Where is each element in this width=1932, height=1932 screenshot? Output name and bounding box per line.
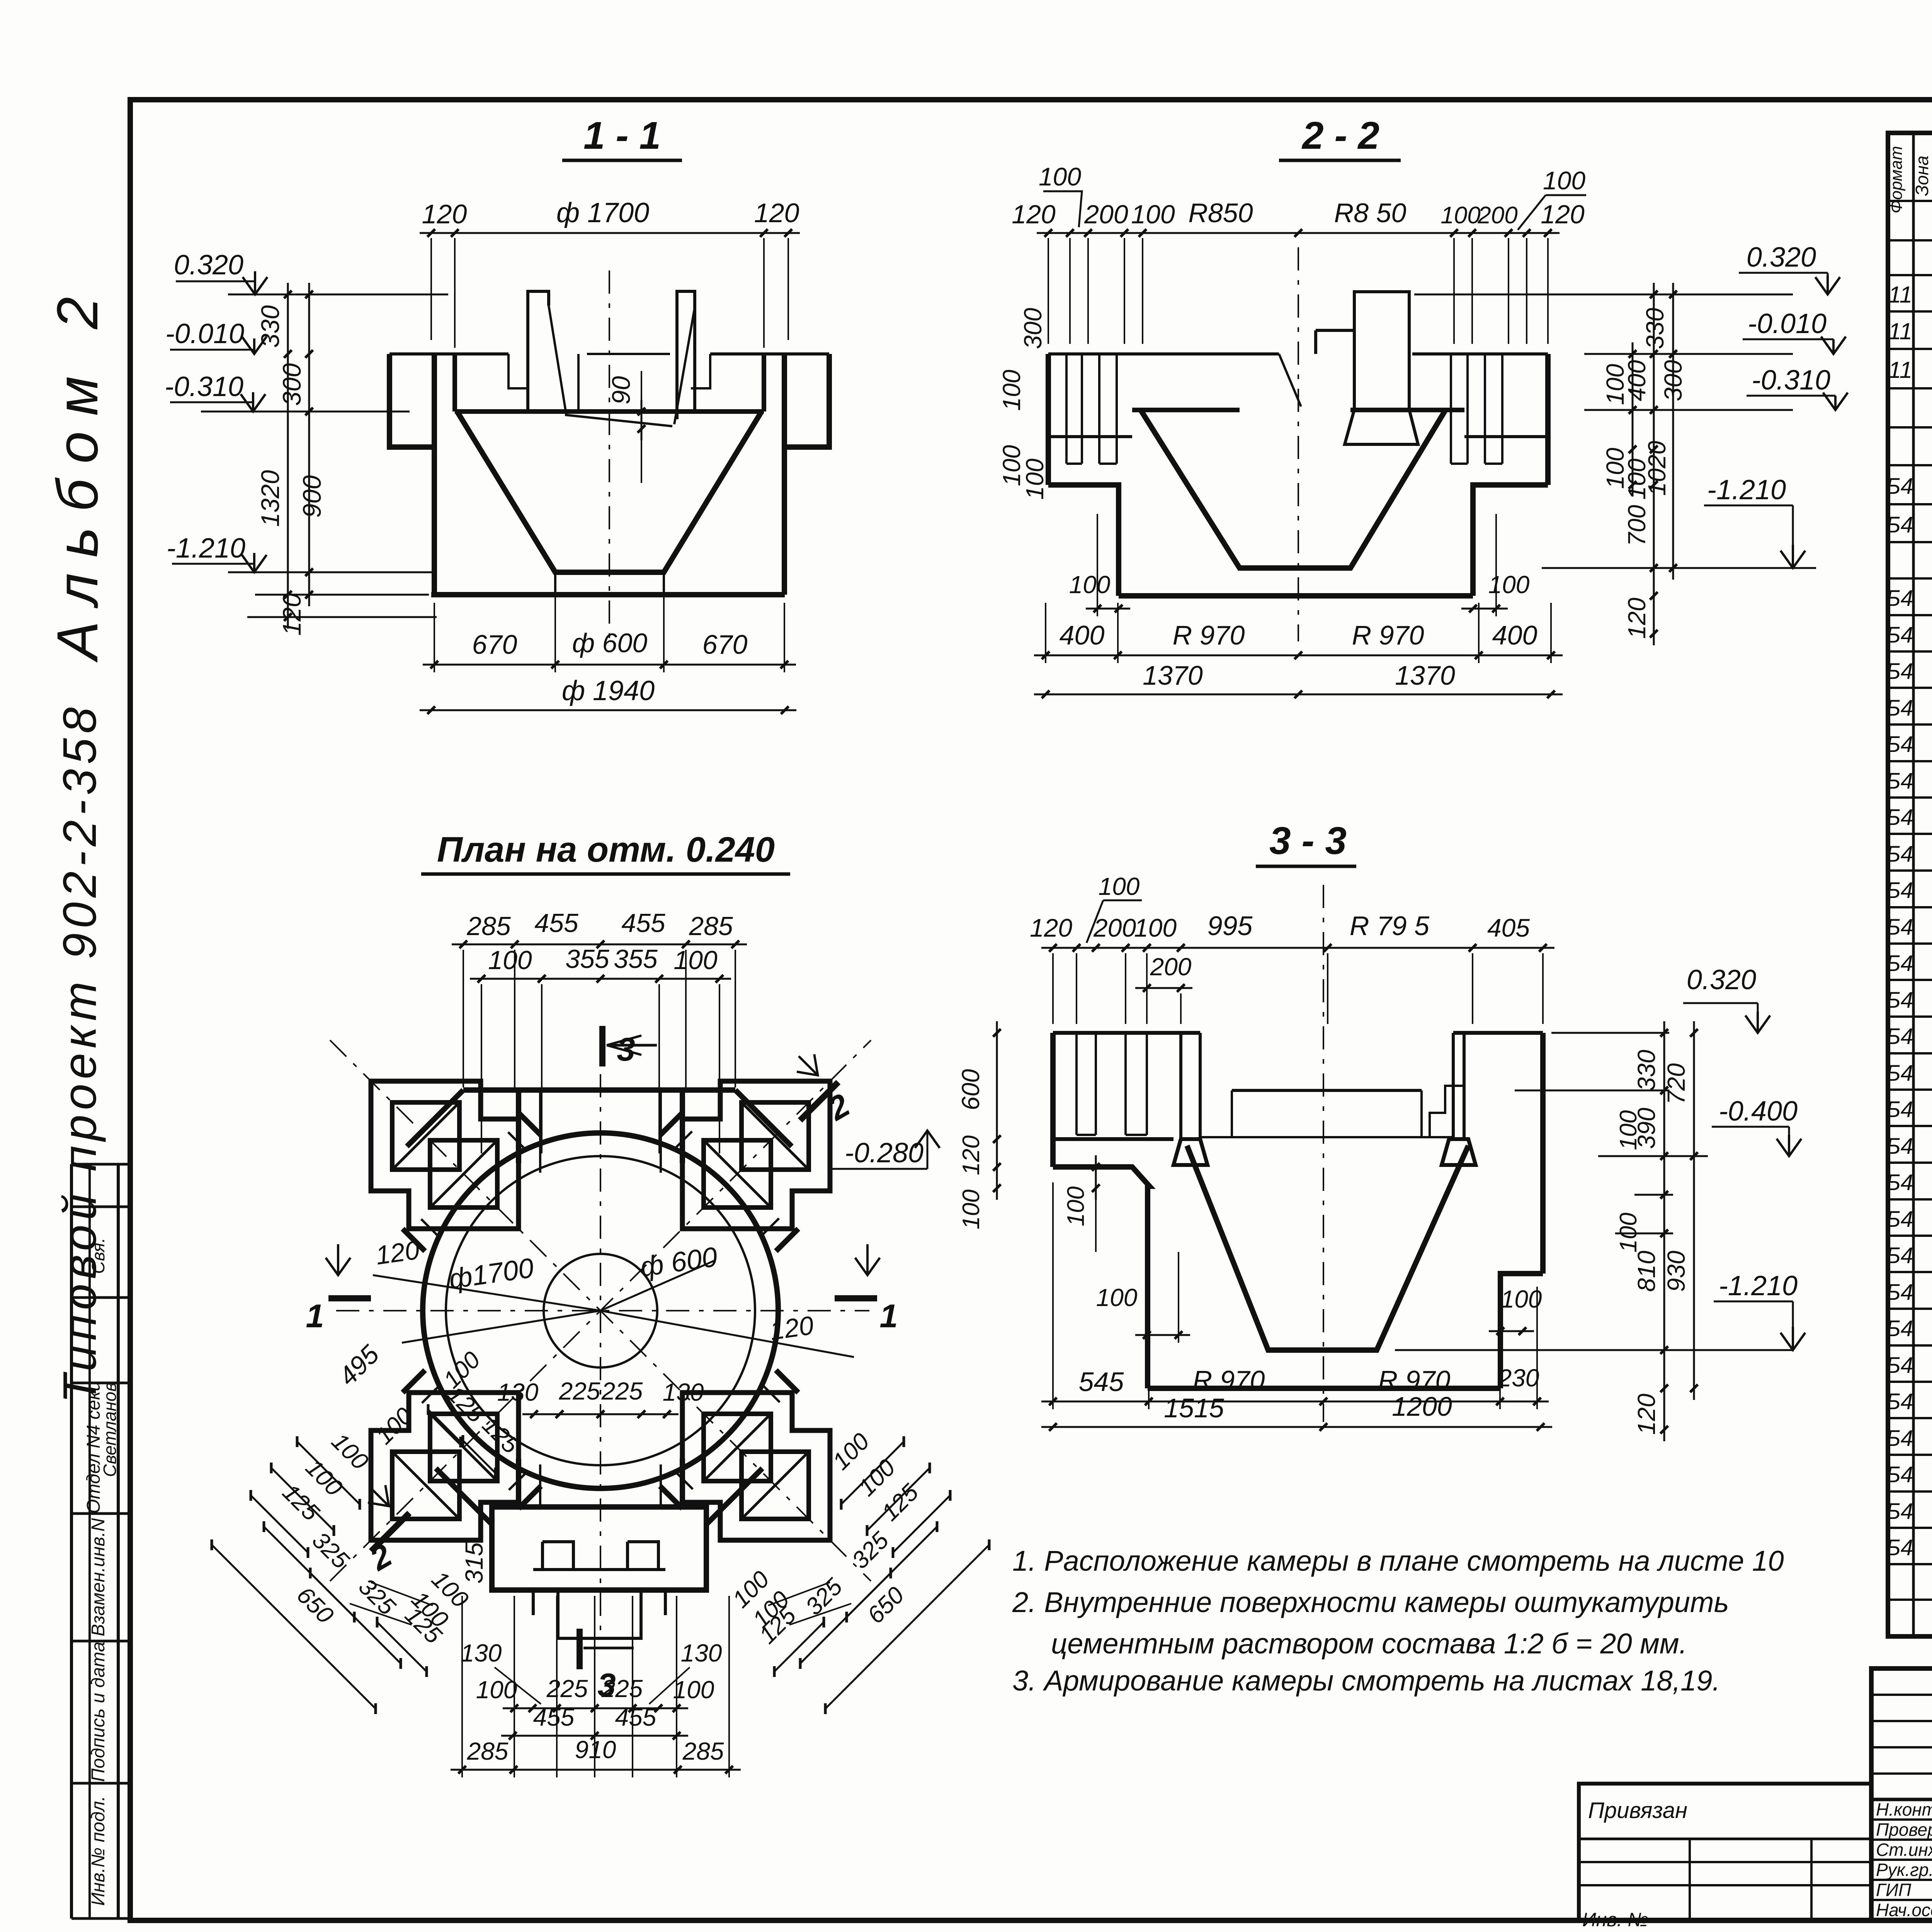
view 2-2 right vertical dims: [1632, 342, 1634, 497]
view 2-2 right level marks: [1414, 294, 1793, 296]
svg-text:455: 455: [534, 908, 578, 938]
svg-text:Б4: Б4: [1886, 842, 1913, 867]
svg-text:Б4: Б4: [1886, 805, 1913, 830]
svg-text:-0.400: -0.400: [1719, 1096, 1798, 1127]
svg-text:225: 225: [546, 1675, 588, 1702]
plan upper-left diagonal small dims: [428, 1410, 461, 1442]
view 1-1 left vertical dims: [287, 283, 289, 629]
svg-text:ГИП: ГИП: [1876, 1880, 1912, 1900]
svg-text:995: 995: [1207, 911, 1253, 941]
svg-text:1: 1: [306, 1298, 324, 1335]
svg-text:R 970: R 970: [1193, 1365, 1265, 1395]
svg-text:0.320: 0.320: [1747, 242, 1816, 273]
plan section marks: [328, 1295, 371, 1301]
svg-text:200: 200: [1477, 202, 1517, 229]
svg-text:Проверил: Проверил: [1876, 1820, 1932, 1840]
plan circles: [423, 1133, 778, 1488]
svg-text:Б4: Б4: [1886, 915, 1913, 940]
view 2-2 outline: [1048, 352, 1279, 355]
svg-text:100: 100: [488, 946, 532, 975]
view 3-3 right vertical dims: [1663, 1021, 1665, 1441]
svg-text:2 - 2: 2 - 2: [1301, 114, 1379, 157]
view 3-3 centerline: [1323, 885, 1324, 1422]
svg-text:700: 700: [1623, 505, 1651, 546]
svg-text:R8 50: R8 50: [1334, 198, 1406, 228]
svg-text:-1.210: -1.210: [1719, 1270, 1798, 1301]
svg-text:405: 405: [1487, 913, 1530, 942]
svg-text:-0.310: -0.310: [165, 371, 243, 402]
svg-text:100: 100: [673, 1676, 714, 1704]
view 1-1 bottom dim ф1940: [420, 709, 796, 711]
svg-text:120: 120: [768, 1311, 815, 1346]
svg-text:720: 720: [1662, 1063, 1690, 1104]
svg-text:400: 400: [1060, 620, 1105, 650]
svg-text:Б4: Б4: [1886, 696, 1913, 721]
svg-text:Ст.инж.: Ст.инж.: [1876, 1840, 1932, 1860]
view 3-3 dim 200: [1135, 987, 1192, 989]
svg-text:Б4: Б4: [1886, 1243, 1913, 1268]
svg-text:455: 455: [621, 908, 665, 938]
svg-text:100: 100: [1440, 202, 1480, 229]
svg-text:230: 230: [1498, 1364, 1539, 1392]
svg-text:Б4: Б4: [1886, 988, 1913, 1013]
svg-text:670: 670: [702, 629, 748, 660]
plan diagonal branches: [371, 1081, 541, 1251]
svg-text:285: 285: [466, 912, 511, 941]
view 3-3 top dims: [1041, 947, 1554, 949]
svg-text:130: 130: [663, 1378, 704, 1406]
svg-text:100: 100: [958, 1189, 985, 1229]
view 3-3 bottom dims: [1041, 1401, 1549, 1403]
svg-text:R 970: R 970: [1173, 620, 1245, 650]
svg-text:300: 300: [277, 363, 306, 406]
view 1-1 chute pipes: [528, 291, 549, 412]
svg-text:120: 120: [1012, 200, 1056, 229]
svg-text:100: 100: [1543, 166, 1585, 195]
svg-text:355: 355: [614, 944, 658, 974]
svg-text:100: 100: [1488, 571, 1530, 599]
svg-text:Светланов: Светланов: [100, 1382, 120, 1477]
svg-text:Б4: Б4: [1886, 1535, 1913, 1560]
svg-text:330: 330: [1633, 1049, 1660, 1091]
plan lower-right diagonal dims: [841, 1442, 904, 1504]
svg-text:100: 100: [1021, 458, 1049, 500]
svg-text:120: 120: [1623, 597, 1651, 639]
plan top channel: [516, 1090, 521, 1163]
svg-text:100: 100: [1134, 913, 1177, 942]
svg-text:810: 810: [1633, 1250, 1660, 1292]
svg-text:Б4: Б4: [1886, 512, 1913, 537]
view 2-2 centerline: [1298, 247, 1299, 641]
svg-text:Б4: Б4: [1886, 1426, 1913, 1451]
margin stamp table: [70, 1164, 73, 1918]
svg-text:300: 300: [1659, 360, 1687, 401]
svg-text:11: 11: [1888, 318, 1912, 344]
svg-text:Б4: Б4: [1886, 622, 1913, 648]
view 1-1 bottom dims 670 ф600 670: [423, 664, 796, 666]
svg-text:120: 120: [1633, 1393, 1660, 1435]
svg-text:Б4: Б4: [1886, 586, 1913, 611]
svg-text:330: 330: [256, 305, 284, 348]
svg-text:1 - 1: 1 - 1: [583, 114, 661, 157]
plan lower-left diagonal dims: [297, 1442, 360, 1504]
view 1-1 outline: [389, 354, 434, 447]
svg-text:225: 225: [559, 1377, 600, 1405]
svg-text:Н.контр.: Н.контр.: [1876, 1799, 1932, 1820]
plan bottom channel: [516, 1459, 521, 1507]
svg-text:Б4: Б4: [1886, 1316, 1913, 1341]
svg-text:225: 225: [601, 1377, 643, 1405]
svg-text:Б4: Б4: [1886, 1170, 1913, 1195]
svg-text:Б4: Б4: [1886, 1353, 1913, 1378]
svg-text:Б4: Б4: [1886, 1389, 1913, 1414]
svg-text:100: 100: [1039, 162, 1081, 191]
view 3-3 right level marks: [1551, 1032, 1669, 1034]
svg-text:Б4: Б4: [1886, 1024, 1913, 1049]
svg-text:120: 120: [1541, 200, 1585, 229]
svg-text:11: 11: [1888, 357, 1912, 383]
svg-text:Рук.гр.: Рук.гр.: [1876, 1860, 1932, 1880]
svg-text:285: 285: [682, 1737, 724, 1765]
svg-text:Б4: Б4: [1886, 878, 1913, 903]
svg-text:Инв. №: Инв. №: [1582, 1909, 1648, 1930]
plan inner dims 130 225 225 130: [522, 1413, 679, 1415]
svg-text:-0.010: -0.010: [1748, 308, 1827, 339]
svg-text:Подпись и дата: Подпись и дата: [88, 1641, 109, 1782]
svg-text:1515: 1515: [1164, 1393, 1225, 1423]
svg-text:90: 90: [607, 376, 635, 405]
svg-text:ф 600: ф 600: [572, 628, 648, 658]
svg-text:R 79 5: R 79 5: [1350, 911, 1430, 941]
svg-text:цементным раствором состав: цементным раствором состава 1:2 б = 20 м…: [1051, 1628, 1687, 1660]
svg-text:225: 225: [601, 1675, 643, 1702]
svg-text:R850: R850: [1188, 198, 1253, 228]
svg-text:Б4: Б4: [1886, 769, 1913, 794]
svg-text:Зона: Зона: [1912, 156, 1932, 196]
svg-text:-1.210: -1.210: [1707, 474, 1786, 505]
svg-text:130: 130: [681, 1639, 722, 1667]
svg-text:455: 455: [533, 1703, 575, 1731]
title block grid: [1871, 1668, 1932, 1920]
svg-text:-0.310: -0.310: [1752, 365, 1830, 396]
svg-text:545: 545: [1079, 1367, 1124, 1397]
svg-text:400: 400: [1492, 620, 1537, 650]
svg-text:130: 130: [461, 1639, 502, 1667]
svg-text:R 970: R 970: [1378, 1365, 1451, 1395]
svg-text:100: 100: [1501, 1285, 1542, 1313]
svg-text:200: 200: [1084, 200, 1128, 229]
svg-text:ф 1940: ф 1940: [562, 675, 655, 706]
svg-text:Привязан: Привязан: [1588, 1798, 1687, 1823]
svg-text:Свя.: Свя.: [88, 1238, 108, 1274]
plan centerlines: [336, 1310, 869, 1311]
svg-text:0.320: 0.320: [1687, 964, 1756, 995]
svg-text:100: 100: [998, 369, 1026, 411]
svg-text:Б4: Б4: [1886, 1134, 1913, 1159]
svg-text:1020: 1020: [1643, 440, 1671, 496]
svg-text:Б4: Б4: [1886, 659, 1913, 684]
view 2-2 top dims: [1037, 232, 1560, 234]
svg-text:100: 100: [1131, 200, 1175, 229]
svg-text:ф 1700: ф 1700: [556, 197, 649, 228]
svg-text:670: 670: [472, 629, 517, 660]
svg-text:Б4: Б4: [1886, 951, 1913, 976]
svg-text:300: 300: [1019, 308, 1047, 349]
svg-text:3: 3: [617, 1031, 635, 1068]
svg-text:Формат: Формат: [1887, 146, 1906, 214]
svg-text:120: 120: [958, 1135, 985, 1175]
svg-text:100: 100: [1069, 571, 1111, 599]
svg-text:1: 1: [879, 1298, 898, 1335]
svg-text:120: 120: [422, 199, 467, 229]
svg-text:100: 100: [1601, 364, 1629, 405]
svg-text:100: 100: [1063, 1186, 1089, 1226]
svg-text:100: 100: [673, 946, 718, 975]
svg-text:120: 120: [1030, 913, 1072, 942]
svg-text:120: 120: [754, 198, 799, 228]
svg-text:285: 285: [689, 912, 733, 941]
svg-text:285: 285: [467, 1737, 509, 1765]
svg-text:Б4: Б4: [1886, 1280, 1913, 1305]
view 2-2 bottom dims: [1034, 655, 1563, 656]
svg-text:-0.280: -0.280: [845, 1138, 923, 1168]
svg-text:Б4: Б4: [1886, 1097, 1913, 1122]
svg-text:1320: 1320: [256, 470, 284, 527]
privyazan box: [1579, 1784, 1871, 1920]
svg-text:200: 200: [1150, 953, 1192, 981]
svg-text:130: 130: [497, 1378, 539, 1406]
svg-text:Нач.осо: Нач.осо: [1876, 1900, 1932, 1920]
svg-text:455: 455: [615, 1703, 656, 1731]
svg-text:11: 11: [1888, 282, 1912, 308]
plan radial leaders: [373, 1275, 600, 1311]
svg-text:План на отм. 0.240: План на отм. 0.240: [437, 830, 775, 869]
view 1-1 top dims 120 ф1700 120: [420, 232, 800, 234]
plan top dims: [452, 944, 747, 946]
svg-text:315: 315: [460, 1542, 488, 1583]
svg-text:2. Внутренние поверхности к: 2. Внутренние поверхности камеры оштукат…: [1012, 1586, 1729, 1618]
svg-text:-0.010: -0.010: [165, 318, 244, 349]
svg-text:Б4: Б4: [1886, 1499, 1913, 1524]
svg-text:200: 200: [1093, 913, 1136, 942]
view 3-3 left dims: [996, 1021, 998, 1200]
svg-text:1370: 1370: [1143, 660, 1203, 690]
svg-text:1370: 1370: [1395, 660, 1455, 690]
spec table grid: [1888, 133, 1932, 1636]
svg-text:-1.210: -1.210: [167, 533, 245, 564]
svg-text:Б4: Б4: [1886, 1061, 1913, 1086]
svg-text:930: 930: [1662, 1250, 1690, 1292]
svg-text:1200: 1200: [1392, 1391, 1452, 1422]
svg-text:3 - 3: 3 - 3: [1269, 819, 1347, 862]
svg-text:120: 120: [277, 593, 306, 636]
svg-text:355: 355: [565, 944, 609, 974]
svg-text:100: 100: [1099, 872, 1140, 900]
svg-text:600: 600: [957, 1069, 985, 1110]
svg-text:0.320: 0.320: [174, 250, 243, 281]
svg-text:1. Расположение камеры в п: 1. Расположение камеры в плане смотреть …: [1012, 1545, 1784, 1577]
svg-text:Б4: Б4: [1886, 732, 1913, 757]
svg-text:Взамен.инв.N: Взамен.инв.N: [88, 1518, 109, 1636]
svg-text:3. Армирование камеры смот: 3. Армирование камеры смотреть на листах…: [1012, 1665, 1720, 1697]
svg-text:Альбом 2: Альбом 2: [45, 281, 110, 663]
view 1-1 centerline: [609, 270, 610, 641]
svg-text:910: 910: [575, 1736, 616, 1764]
svg-text:100: 100: [1615, 1110, 1642, 1150]
svg-text:Инв.№ подл.: Инв.№ подл.: [88, 1796, 109, 1906]
view 3-3 outline: [1053, 1031, 1200, 1035]
svg-text:120: 120: [374, 1235, 421, 1270]
svg-text:100: 100: [1096, 1284, 1138, 1311]
svg-text:330: 330: [1641, 308, 1669, 349]
svg-text:Б4: Б4: [1886, 474, 1913, 499]
svg-text:Б4: Б4: [1886, 1462, 1913, 1487]
svg-text:Б4: Б4: [1886, 1207, 1913, 1232]
svg-text:R 970: R 970: [1352, 620, 1424, 650]
svg-text:900: 900: [298, 475, 326, 518]
plan dims below: [503, 1708, 688, 1709]
